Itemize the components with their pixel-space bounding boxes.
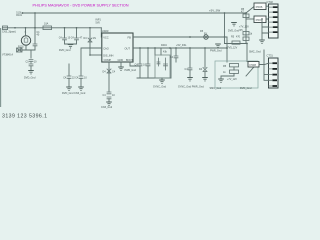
svg-text:VT3845 A: VT3845 A [2,54,13,57]
wire x262 branch [261,18,263,20]
wire BOOT pin [130,62,140,66]
svg-text:R101: R101 [16,14,22,17]
capacitor C401 [64,28,66,38]
zener D402 [107,69,111,73]
svg-text:U403: U403 [102,29,109,33]
diode D403 [204,35,209,40]
op-amp U403 regulator IC [102,33,133,62]
ground CN3_Gnd [106,102,112,105]
ground SYNC_Gnd 2 [187,78,193,81]
wire to F507 [246,18,254,20]
zener D404 [204,48,206,78]
ground SMC_Gnd box [218,79,224,82]
svg-text:5V0: 5V0 [96,21,101,24]
resistor R507 [230,64,239,67]
svg-text:SYNC_Gnd PWR_Gnd: SYNC_Gnd PWR_Gnd [178,86,204,89]
wire CAO left [81,48,102,76]
resistor R508 [230,70,239,73]
svg-text:OUT: OUT [125,46,131,50]
transformer T101 circle [21,36,30,45]
svg-text:SMC_Gnd: SMC_Gnd [210,87,222,90]
wire y43 branch [225,43,248,45]
svg-text:CN3_Gnd: CN3_Gnd [101,106,113,109]
wire rail FB y37 [134,36,228,38]
wire x264 feed [264,50,269,80]
wire rail +5V_SW y13 [23,12,247,14]
left scan edge [0,28,2,107]
svg-text:+5V_DIG: +5V_DIG [176,44,186,47]
capacitor C104 [29,60,33,66]
svg-text:+5V_SW: +5V_SW [209,9,220,13]
svg-text:+7V_12V: +7V_12V [239,25,249,28]
connector stub CN3 [3,26,8,30]
svg-text:DVD_Gnd: DVD_Gnd [24,76,36,79]
svg-text:VCC: VCC [103,35,109,39]
svg-text:CT31: CT31 [267,54,274,58]
ground PWR_Gnd IC [118,67,124,70]
wire rail OUT y50 [134,47,228,49]
resistor R403 [107,92,111,99]
svg-text:SYNC_Gnd: SYNC_Gnd [153,86,167,89]
wire circle top [25,28,27,36]
wire x247 drop [246,44,248,62]
fuse F101 [43,26,52,30]
svg-text:+7V_12V: +7V_12V [227,78,237,81]
regulator subcircuit box [215,61,258,88]
wire diagonal to F508 [246,65,256,77]
wire F506 out [266,5,273,7]
wire COMP chain [108,62,110,68]
svg-text:470: 470 [236,35,241,38]
ground PWR_Gnd 3 [215,44,221,47]
capacitor C404 [68,64,70,76]
capacitor C403 [79,76,83,78]
ground C404 [66,87,72,90]
resistor R509 chain [245,19,247,44]
node junction x35 y13 [22,12,24,14]
capacitor C412 [175,48,177,56]
wire rail AC y24.5 [3,27,102,29]
zener D401 [89,28,91,55]
svg-text:DVD_Gnd: DVD_Gnd [228,30,240,33]
fuse F508 [248,62,259,68]
svg-text:DVD_Gnd: DVD_Gnd [59,49,71,52]
wire GND pin [120,62,122,67]
capacitor C413 [189,48,191,68]
svg-text:COMP: COMP [104,59,112,62]
ground SMC_Gnd top [259,40,265,43]
svg-text:DVD_Gnd: DVD_Gnd [240,87,252,90]
wire DIS_INH [90,54,102,56]
capacitor C410 [139,48,141,64]
ground PWR_Gnd 2 [202,78,208,81]
svg-text:DVD_Gnd CN3_Gnd: DVD_Gnd CN3_Gnd [62,92,86,95]
wire x35 drop [34,13,36,44]
svg-text:1N: 1N [93,37,96,40]
fuse F507 [254,16,266,23]
svg-text:GND: GND [118,59,124,62]
wire circle bottom [18,45,35,58]
wire x227 drop [226,37,228,62]
svg-text:PHILIPS MAGNAVOX - DVD POWER S: PHILIPS MAGNAVOX - DVD POWER SUPPLY SECT… [33,3,129,7]
resistor R506 ladder [245,13,247,19]
wire VCC feed [100,28,103,37]
svg-text:PWR_Gnd: PWR_Gnd [125,69,137,72]
ground C403 [78,87,84,90]
svg-text:R404: R404 [161,44,167,47]
svg-text:SMC_Gnd: SMC_Gnd [249,51,261,54]
ground DVD_Gnd left [28,71,34,74]
capacitor C402 [76,28,78,38]
inductor L402 block [137,48,171,78]
svg-text:CN3_3(part): CN3_3(part) [2,30,16,33]
svg-text:F506: F506 [256,5,263,9]
wire F507 out [266,17,269,19]
svg-text:DIS_INH: DIS_INH [103,53,113,57]
wire to F506 diagonal [246,7,254,14]
capacitor C411 [147,48,149,64]
svg-text:FB: FB [128,35,132,39]
ground DVD_Gnd mid [68,45,74,48]
fuse F506 [254,3,266,10]
svg-text:10A: 10A [44,23,49,26]
svg-text:BY: BY [204,32,208,35]
node dots rail1 [34,27,36,29]
wire x224 drop [224,13,226,44]
svg-text:PWR_Gnd: PWR_Gnd [210,50,222,53]
node dots rail [14,27,16,29]
ground DVD_Gnd r [231,23,237,26]
svg-text:CAO: CAO [103,46,109,50]
svg-text:3139 123 5396.1: 3139 123 5396.1 [2,114,47,120]
resistor R505 [232,41,240,44]
wire F508 out [259,63,272,64]
node junction x224 y13 [224,12,226,14]
ground SYNC_Gnd [159,80,165,83]
svg-text:F508: F508 [250,63,257,67]
